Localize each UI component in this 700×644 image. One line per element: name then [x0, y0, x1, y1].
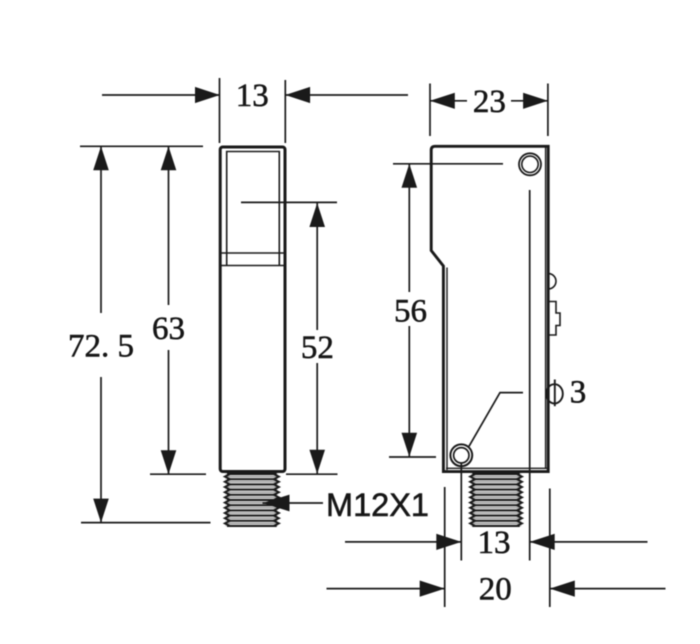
svg-text:56: 56	[394, 294, 427, 330]
side view body outline	[431, 146, 548, 471]
phi3 leader polyline	[469, 393, 523, 447]
svg-text:52: 52	[301, 330, 334, 366]
dimension 63: bottom extension line	[150, 473, 206, 475]
M12X1 leader tail	[263, 502, 324, 504]
arrowhead 13 top left	[195, 87, 220, 103]
arrowhead 56 bottom	[402, 433, 418, 457]
arrowhead M12X1	[263, 495, 290, 512]
dimension 72.5: bottom extension line	[81, 522, 211, 524]
svg-text:13: 13	[478, 525, 511, 561]
front lens window rectangle	[227, 152, 280, 266]
dimension 13 top: extension lines	[102, 78, 408, 143]
svg-text:M12X1: M12X1	[326, 487, 429, 523]
svg-text:3: 3	[570, 375, 587, 411]
arrowhead 23 right	[523, 93, 548, 109]
arrowhead 56 top	[402, 164, 418, 188]
dimension 56: bottom extension line	[389, 456, 436, 458]
arrowhead 52 top	[309, 203, 325, 227]
svg-text:63: 63	[152, 311, 185, 347]
adjuster step feature on right edge	[548, 302, 560, 336]
front window divider line	[221, 252, 284, 254]
dimension 63: vertical line	[150, 146, 206, 474]
dimension 72.5 and 63: top extension line	[80, 145, 203, 147]
front window bottom line	[221, 265, 284, 267]
arrowhead 52 bottom	[309, 450, 325, 474]
dimension 56: top extension line	[389, 164, 503, 457]
side M12 threaded connector	[470, 474, 522, 526]
front view body outline	[220, 147, 285, 472]
dimension 72.5: vertical line	[81, 146, 211, 522]
arrowhead 20 left	[420, 581, 445, 597]
arrowhead 23 left	[430, 93, 455, 109]
side cover inner edge (bottom)	[446, 467, 547, 469]
dimension 13 bottom: arrow tails	[345, 541, 648, 543]
arrowhead 72.5 bottom	[93, 499, 109, 523]
front M12 threaded connector	[225, 474, 279, 526]
top mounting hole	[519, 153, 541, 175]
arrowhead 63 top	[161, 146, 177, 170]
extension line through bottom hole	[460, 463, 462, 561]
svg-text:20: 20	[479, 572, 512, 608]
extension line through top hole center	[529, 190, 531, 561]
svg-text:23: 23	[473, 84, 506, 120]
side cover inner edge (left)	[446, 268, 448, 471]
dimension 20: extension lines	[327, 487, 666, 607]
optical axis leader line	[241, 201, 337, 203]
phi symbol of phi3 label	[546, 380, 563, 407]
arrowhead 13 top right	[285, 87, 310, 103]
arrowhead 20 right	[550, 581, 575, 597]
dimension 52: bottom extension line	[286, 473, 338, 475]
dimension 13 top: arrow tails	[102, 94, 220, 96]
dimension 52: vertical line	[286, 203, 338, 474]
side connector gray fill	[471, 473, 522, 527]
indicator LED bump on right edge	[548, 274, 556, 289]
arrowhead 13 bottom right	[530, 534, 555, 550]
bottom mounting hole	[450, 444, 472, 466]
dimension 56: vertical line	[408, 164, 410, 292]
arrowhead 72.5 top	[93, 146, 109, 170]
svg-text:72. 5: 72. 5	[68, 329, 134, 365]
svg-text:13: 13	[236, 78, 269, 114]
dimension 23: extension lines	[430, 84, 548, 137]
arrowhead 63 bottom	[161, 450, 177, 474]
dimension 23: inner tails	[430, 100, 467, 102]
arrowhead 13 bottom left	[436, 534, 461, 550]
side cover inner edge (right)	[545, 148, 547, 470]
dimension 20: arrow tails	[327, 588, 445, 590]
front connector gray fill	[225, 473, 278, 527]
